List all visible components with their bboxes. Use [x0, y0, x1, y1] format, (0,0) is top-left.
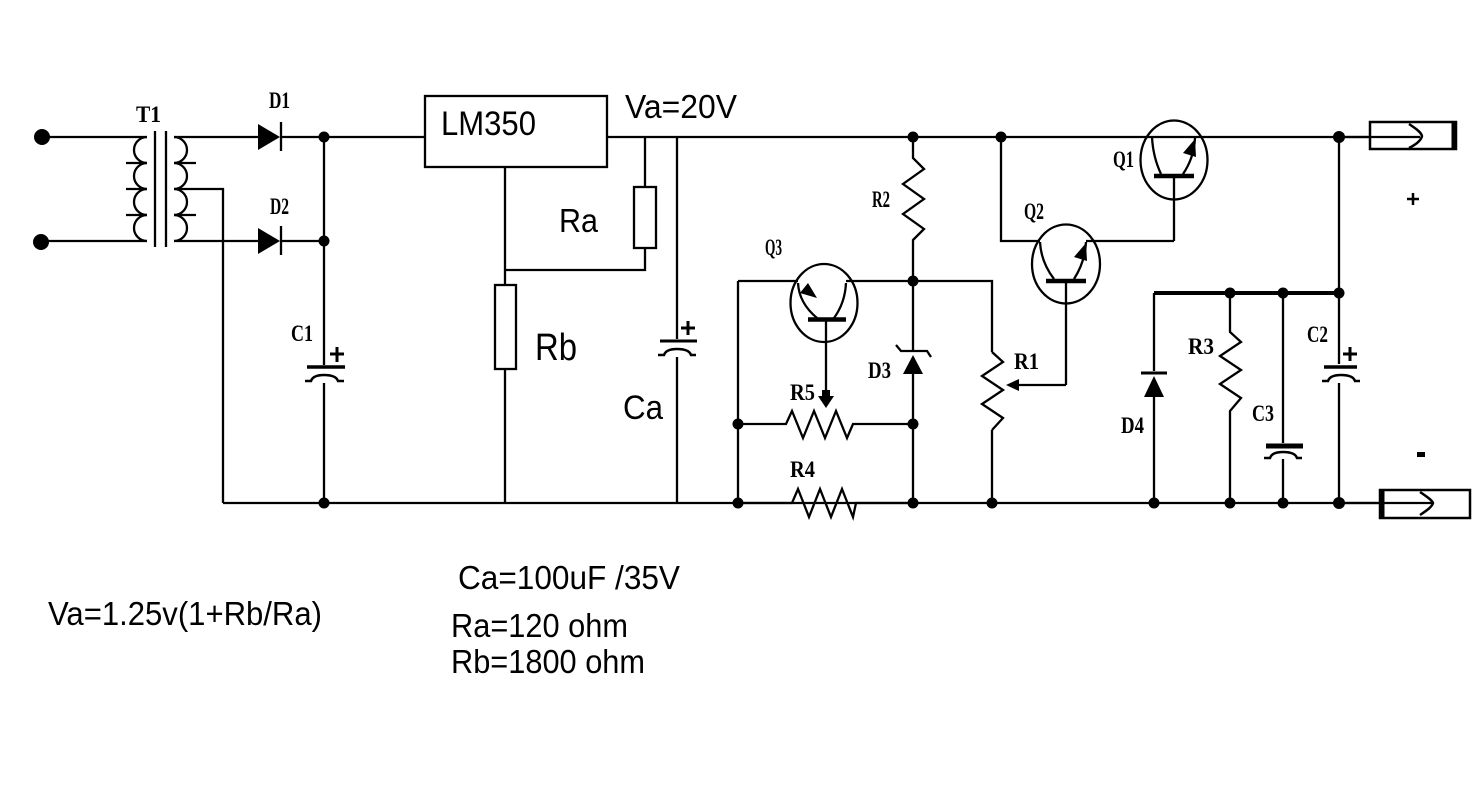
wire output column [1338, 137, 1340, 364]
capacitor C1 plus sign [330, 347, 344, 362]
transformer primary taps [126, 162, 147, 164]
transformer center tap wire [174, 189, 223, 503]
svg-text:C3: C3 [1252, 401, 1274, 426]
transformer T1 secondary winding [174, 137, 187, 241]
wire top rail to D1 [174, 136, 258, 138]
output terminal plus [1339, 136, 1420, 138]
wire D3 column to bottom [912, 424, 914, 503]
plus sign output [1407, 193, 1419, 205]
node D4 bottom [1149, 498, 1160, 509]
svg-text:T1: T1 [136, 102, 161, 127]
wire Q2 emitter to Q1 base [1086, 240, 1174, 242]
wire Q1 base stem [1173, 178, 1175, 241]
resistor R3 [1220, 293, 1241, 503]
capacitor C1 [307, 365, 345, 369]
transistor Q3 [791, 264, 858, 342]
svg-text:R5: R5 [790, 380, 815, 405]
bottom rail wire [223, 502, 1381, 504]
wire R1 branch [913, 281, 992, 352]
svg-text:Va=20V: Va=20V [625, 88, 737, 125]
svg-text:R3: R3 [1188, 334, 1214, 359]
diode D1 [258, 124, 280, 150]
node D3 bottom [908, 498, 919, 509]
svg-text:LM350: LM350 [441, 105, 536, 143]
node R3 top [1225, 288, 1236, 299]
resistor Ra [634, 187, 656, 248]
svg-text:Ra: Ra [559, 202, 599, 239]
node bottom left [733, 498, 744, 509]
input terminal bottom [33, 234, 49, 250]
diode D2 [258, 228, 280, 254]
wire [48, 136, 147, 138]
node C3 bottom [1278, 498, 1289, 509]
minus sign output [1417, 452, 1425, 457]
svg-text:D3: D3 [868, 358, 891, 383]
capacitor Ca plus sign [681, 321, 695, 335]
wire Ra bottom to adj [505, 248, 645, 270]
node C3 top [1278, 288, 1289, 299]
wire Ca column [676, 137, 678, 339]
node C1 bottom [319, 498, 330, 509]
svg-text:R2: R2 [872, 187, 890, 212]
svg-text:C2: C2 [1307, 322, 1328, 347]
capacitor C3 [1282, 293, 1284, 443]
zener diode D3 [912, 281, 914, 351]
wire Q2 base stem [1065, 283, 1067, 385]
resistor R5 [738, 411, 913, 438]
capacitor Ca [660, 340, 697, 343]
transformer secondary taps [174, 162, 196, 164]
diode D4 [1141, 372, 1167, 375]
output terminal minus [1339, 502, 1432, 504]
sub rail wire [1154, 291, 1340, 295]
resistor R4 [738, 489, 913, 517]
wire C1 column [323, 137, 325, 365]
wire D4 column top [1153, 293, 1155, 371]
svg-text:R4: R4 [790, 457, 815, 482]
wire Q3 left to column [738, 280, 798, 282]
node C2 top [1334, 288, 1345, 299]
node R5 right [908, 419, 919, 430]
svg-text:Rb=1800 ohm: Rb=1800 ohm [451, 643, 645, 680]
capacitor C2 [1324, 365, 1357, 369]
wire Q2 base to R1 wiper [1019, 384, 1066, 386]
node R5 left [733, 419, 744, 430]
transformer T1 core [154, 131, 156, 247]
wire Ca to bottom rail [676, 357, 678, 503]
svg-text:D1: D1 [269, 88, 290, 113]
potentiometer R1 [982, 352, 1003, 430]
node top rail output branch [1333, 131, 1345, 143]
svg-text:Q2: Q2 [1024, 199, 1044, 224]
wire C1 to bottom rail [323, 383, 325, 503]
svg-text:R1: R1 [1014, 349, 1039, 374]
svg-text:D2: D2 [270, 194, 289, 219]
node top rail Q2 branch [996, 132, 1007, 143]
svg-text:Rb: Rb [535, 327, 577, 369]
wire secondary bottom to D2 [174, 240, 258, 242]
wire D2 to junction [281, 240, 324, 242]
node R3 bottom [1225, 498, 1236, 509]
transformer T1 primary winding [134, 137, 147, 241]
wire Q3 base stem to R5 wiper [825, 321, 827, 398]
node C2 bottom [1333, 497, 1345, 509]
wire top rail from LM350 [607, 136, 1370, 138]
transistor Q2 [1032, 225, 1100, 304]
svg-text:Ca: Ca [623, 389, 663, 427]
wire Q3 left column [737, 281, 739, 503]
node Q3 collector junction [908, 276, 919, 287]
wire LM350 adj pin [504, 167, 506, 285]
node R2 top [908, 132, 919, 143]
wire Q3 right to junction [846, 280, 913, 282]
capacitor C2 plus sign [1343, 347, 1357, 361]
svg-text:Va=1.25v(1+Rb/Ra): Va=1.25v(1+Rb/Ra) [48, 595, 322, 632]
regulator U1 LM350 box [425, 96, 607, 167]
svg-text:Ca=100uF /35V: Ca=100uF /35V [458, 559, 680, 596]
wire to Q2 collector [1001, 137, 1040, 241]
node R1 bottom [987, 498, 998, 509]
svg-text:Q3: Q3 [765, 235, 782, 260]
svg-text:Ra=120 ohm: Ra=120 ohm [451, 607, 628, 644]
node D2 junction [319, 236, 330, 247]
wire [48, 240, 147, 242]
transistor Q1 [1141, 121, 1208, 200]
wire Rb to bottom rail [504, 369, 506, 503]
node D1-C1 junction [319, 132, 330, 143]
wire Ra column [644, 137, 646, 187]
input terminal top [34, 129, 50, 145]
svg-text:D4: D4 [1121, 413, 1144, 438]
svg-text:Q1: Q1 [1113, 147, 1134, 172]
resistor R2 [903, 137, 924, 281]
svg-text:C1: C1 [291, 321, 313, 346]
resistor Rb [495, 285, 516, 369]
wire D1 to LM350 [281, 136, 425, 138]
